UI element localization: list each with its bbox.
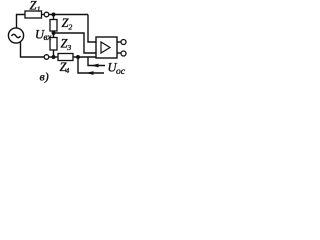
terminal output bottom [121,51,126,56]
wire amp output 2 [117,52,121,54]
arrowhead upper feedback [91,64,99,68]
terminal output top [121,40,126,45]
wire bottom rail right of Z4 [73,56,96,58]
wire to amp input 1 [88,15,96,43]
wire top from Z1 to bend [42,14,45,16]
wire Z3 bottom lead [53,50,55,57]
op-amp U1 triangle [101,42,110,53]
generator G1 (AC source) [8,28,23,43]
node B junction dot (Z2/Z3) [52,31,56,35]
wire Z3 top lead [53,33,55,38]
node D junction dot rail right [76,55,80,59]
terminal input bottom [44,55,49,60]
resistor Z1 [25,11,42,18]
svg-text:в): в) [40,70,49,84]
wire feedback upper [88,57,105,66]
wire Z2 top lead [53,15,55,20]
terminal input top [44,12,49,17]
wire gen bottom lead [21,42,45,57]
wire node B to amp input 2 [54,33,97,53]
wire amp output 1 [117,41,121,43]
wire bottom rail left of Z4 [49,56,58,58]
resistor Z4 [58,54,73,61]
node A junction dot top [52,13,56,17]
resistor Z3 [50,38,57,51]
op-amp U1 box [96,37,117,58]
arrowhead lower feedback [86,71,94,75]
node C junction dot rail [52,55,56,59]
wire gen top lead [17,15,26,29]
wire top right segment [49,14,88,16]
wire Z2 bottom lead [53,31,55,33]
wire feedback lower [78,57,104,73]
resistor Z2 [50,20,57,32]
